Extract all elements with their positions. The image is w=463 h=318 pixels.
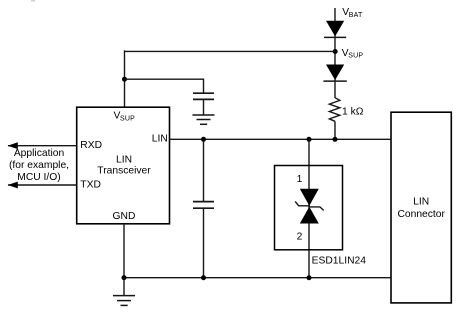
wire GND pin vertical xyxy=(123,224,125,278)
capacitor C2 xyxy=(193,202,214,209)
svg-text:Transceiver: Transceiver xyxy=(97,165,151,176)
svg-text:LIN: LIN xyxy=(116,154,132,165)
ground G1 xyxy=(193,115,215,124)
diode D2 xyxy=(323,65,346,82)
svg-text:MCU I/O): MCU I/O) xyxy=(17,172,60,183)
svg-text:Application: Application xyxy=(14,148,65,159)
wire TXD xyxy=(8,184,77,186)
ground G2 xyxy=(113,296,135,306)
svg-text:RXD: RXD xyxy=(80,140,102,151)
node VSUP junction dot xyxy=(333,49,338,54)
node GND junction dot xyxy=(122,275,127,280)
wire C2 vertical bottom xyxy=(203,208,205,278)
svg-text:2: 2 xyxy=(297,232,303,243)
resistor R1 xyxy=(329,98,339,122)
svg-text:LIN: LIN xyxy=(413,197,429,208)
ESD device box xyxy=(275,166,343,250)
wire ESD vertical xyxy=(308,139,310,277)
TVS diode upper xyxy=(300,189,319,206)
svg-text:BAT: BAT xyxy=(349,12,363,19)
wire LIN bus xyxy=(170,138,392,140)
label VBAT xyxy=(342,7,363,19)
capacitor C1 xyxy=(193,93,214,99)
label LIN Transceiver xyxy=(97,154,151,176)
arrow TXD xyxy=(8,182,18,189)
node LIN-C2 junction dot xyxy=(201,137,206,142)
svg-text:ESD1LIN24: ESD1LIN24 xyxy=(312,255,367,266)
svg-text:SUP: SUP xyxy=(120,115,135,122)
svg-text:1 kΩ: 1 kΩ xyxy=(342,107,364,118)
label LIN Connector xyxy=(397,197,445,221)
svg-text:1: 1 xyxy=(297,174,303,185)
connector J1 box xyxy=(391,112,451,303)
wire bottom ground bus xyxy=(124,277,391,279)
wire VSUP pin vertical xyxy=(124,50,126,107)
wire branch to C1 xyxy=(125,79,204,93)
svg-text:Connector: Connector xyxy=(397,209,445,220)
label VSUP node xyxy=(342,48,364,60)
wire VBAT lead xyxy=(334,8,336,98)
node bus-C2 junction dot xyxy=(201,275,206,280)
node bus-ESD junction dot xyxy=(307,275,312,280)
svg-text:SUP: SUP xyxy=(348,53,363,60)
TVS diode lower xyxy=(300,207,319,224)
wire RXD xyxy=(8,145,77,147)
label Application xyxy=(9,148,69,183)
wire R1 bottom lead xyxy=(334,121,336,139)
svg-text:TXD: TXD xyxy=(80,179,101,190)
wire C1 to ground xyxy=(203,99,205,115)
arrow RXD xyxy=(8,142,18,149)
wire ground stub xyxy=(123,278,125,296)
wire top horizontal VSUP xyxy=(125,50,336,52)
svg-text:GND: GND xyxy=(113,211,136,222)
node LIN-R1 junction dot xyxy=(333,137,338,142)
diode D1 xyxy=(324,21,346,38)
node LIN-ESD junction dot xyxy=(307,137,312,142)
wire C2 vertical top xyxy=(203,139,205,201)
label VSUP pin xyxy=(114,111,136,123)
transceiver U1 box xyxy=(77,107,170,224)
TVS zener bar xyxy=(295,202,324,211)
svg-text:(for example,: (for example, xyxy=(9,160,69,171)
svg-text:LIN: LIN xyxy=(152,134,168,145)
stray text remnant at top edge xyxy=(31,0,33,2)
node cap branch junction dot xyxy=(122,77,127,82)
